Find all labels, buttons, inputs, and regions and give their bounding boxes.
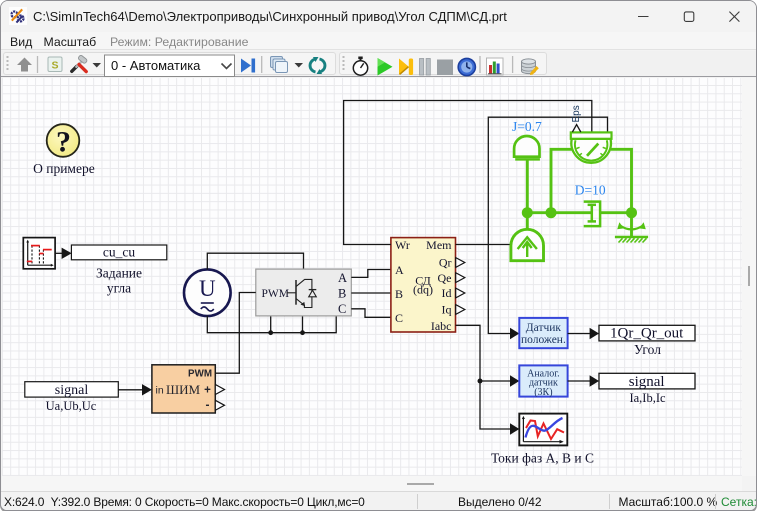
- output box cu_cu: [71, 245, 166, 260]
- AC voltage source U~: [184, 269, 231, 316]
- svg-text:B: B: [395, 287, 403, 301]
- gauge block Eps (accelerometer): [571, 132, 612, 162]
- svg-text:Задание: Задание: [96, 266, 142, 281]
- wire inverter B to motor B: [351, 292, 391, 294]
- wire inverter A to motor A: [351, 270, 391, 278]
- svg-text:угла: угла: [107, 281, 131, 296]
- h-scroll thumb: [407, 483, 434, 485]
- svg-text:PWM: PWM: [188, 369, 212, 380]
- svg-text:cu_cu: cu_cu: [103, 245, 135, 260]
- svg-text:Ua,Ub,Uc: Ua,Ub,Uc: [46, 399, 97, 413]
- svg-text:ШИМ: ШИМ: [166, 382, 201, 397]
- svg-text:Угол: Угол: [634, 342, 661, 357]
- port - marker: [215, 400, 224, 410]
- svg-text:Id: Id: [442, 286, 452, 300]
- svg-text:U: U: [199, 276, 216, 301]
- node shaft 1: [522, 207, 533, 218]
- wire inverter bottom stub 2: [302, 316, 304, 333]
- svg-text:Iabc: Iabc: [431, 319, 452, 333]
- node shaft 3: [626, 207, 637, 218]
- svg-text:(3К): (3К): [534, 387, 552, 398]
- wire U- DC rail: [207, 316, 336, 333]
- svg-text:Ia,Ib,Ic: Ia,Ib,Ic: [629, 391, 666, 405]
- play icon: [378, 58, 393, 76]
- port Qe marker: [456, 273, 465, 283]
- toolbar: [1, 51, 756, 77]
- layers icon: [271, 57, 283, 68]
- script icon: [48, 57, 62, 72]
- wire node to gauge left: [551, 149, 572, 212]
- junction dot Iabc: [478, 379, 483, 384]
- wire ШИМ PWM out to inverter gate: [215, 293, 256, 374]
- gauge input marker: [572, 125, 580, 132]
- svg-text:положен.: положен.: [521, 334, 566, 346]
- sync icon: [310, 59, 315, 72]
- wire inertia to torque source vertical: [526, 160, 529, 230]
- svg-text:Eps: Eps: [571, 105, 582, 122]
- svg-text:Mem: Mem: [426, 238, 452, 252]
- svg-text:in: in: [156, 385, 164, 397]
- position sensor block: [519, 318, 567, 348]
- arrow into position sensor: [510, 328, 519, 339]
- output box signal: [599, 373, 695, 389]
- svg-text:+: +: [204, 384, 211, 396]
- svg-text:Токи фаз А, В и С: Токи фаз А, В и С: [491, 451, 594, 466]
- damper block D: [584, 202, 600, 227]
- svg-text:PWM: PWM: [262, 288, 289, 300]
- svg-text:(dq): (dq): [413, 283, 433, 297]
- grip 2: [343, 56, 345, 70]
- source block (angle setpoint plot icon): [23, 238, 55, 269]
- pause icon (disabled): [420, 59, 424, 76]
- wire damper to right node: [600, 211, 631, 214]
- PWM modulator block ШИМ: [152, 365, 225, 413]
- wire position sensor to output: [568, 333, 590, 335]
- svg-text:0 - Автоматика: 0 - Автоматика: [111, 58, 201, 73]
- svg-text:Iq: Iq: [442, 303, 452, 317]
- wire angle net to gauge and position sensor: [488, 117, 607, 333]
- menubar: [1, 32, 756, 50]
- port Iq marker: [456, 305, 465, 315]
- svg-text:A: A: [395, 263, 404, 277]
- wire signal to ШИМ: [118, 389, 142, 391]
- green mechanical net: [527, 149, 631, 236]
- svg-text:S: S: [51, 60, 58, 72]
- svg-text:signal: signal: [629, 374, 665, 390]
- junction dot rail 1: [268, 330, 273, 335]
- diode D: [309, 290, 317, 297]
- wire node to ground: [630, 213, 633, 236]
- node shaft 2: [546, 207, 557, 218]
- arrow into scope: [510, 423, 519, 434]
- svg-text:Датчик: Датчик: [526, 322, 562, 334]
- svg-text:J=0.7: J=0.7: [512, 119, 542, 134]
- wire U+ to inverter top: [207, 253, 303, 269]
- torque source block: [511, 229, 544, 260]
- arrow into cu_cu: [62, 248, 72, 259]
- wire Mem to torque source: [456, 244, 512, 246]
- inverter block (PWM bridge): [256, 269, 351, 316]
- stopwatch icon: [353, 61, 367, 75]
- svg-text:Qe: Qe: [438, 271, 452, 285]
- port + marker: [215, 385, 224, 395]
- svg-text:1Qr_Qr_out: 1Qr_Qr_out: [610, 326, 684, 342]
- svg-text:A: A: [338, 271, 347, 285]
- stop icon (disabled): [437, 60, 453, 76]
- wire inverter C to motor C: [351, 309, 391, 318]
- svg-text:B: B: [338, 287, 346, 301]
- wire shaft horizontal: [527, 211, 591, 214]
- tools icon: [72, 55, 88, 72]
- run-to icon: [241, 59, 251, 73]
- junction dot rail 2: [300, 330, 305, 335]
- wire Wr feedback loop: [344, 101, 592, 245]
- grip 1: [7, 56, 9, 70]
- database icon: [522, 62, 536, 74]
- arrow into ШИМ: [142, 384, 152, 395]
- svg-text:D=10: D=10: [575, 183, 606, 198]
- chart icon: [487, 58, 504, 75]
- svg-text:signal: signal: [55, 383, 89, 398]
- wire gauge right to node: [611, 149, 632, 212]
- svg-text:-: -: [206, 398, 210, 412]
- output box 1Qr_Qr_out: [599, 325, 695, 341]
- titlebar: [1, 1, 756, 32]
- transistor Q (IGBT): [295, 280, 297, 305]
- wire source to cu_cu: [55, 252, 62, 254]
- analog sensor block: [519, 365, 567, 398]
- rotational ground: [615, 222, 648, 242]
- wire Iabc branch to analog sensor: [480, 380, 511, 382]
- arrow into 1Qr_Qr_out: [590, 328, 599, 339]
- svg-text:Wr: Wr: [395, 238, 410, 252]
- synchronous motor block СД (dq): [391, 238, 465, 333]
- wire Iabc down: [456, 325, 511, 429]
- svg-text:C: C: [395, 311, 403, 325]
- canvas grid: [2, 78, 742, 476]
- port Qr marker: [456, 258, 465, 268]
- statusbar: [1, 491, 756, 510]
- wire analog sensor to output: [568, 380, 590, 382]
- inertia block J: [514, 136, 540, 159]
- scope block: [519, 414, 567, 446]
- input box signal: [25, 382, 119, 397]
- sim-time clock icon: [458, 58, 475, 75]
- svg-text:C: C: [338, 302, 346, 316]
- help block "О примере": [33, 124, 95, 176]
- svg-text:?: ?: [56, 126, 71, 159]
- wire inverter bottom stub 1: [270, 316, 272, 333]
- arrow into signal output: [590, 375, 599, 386]
- arrow into analog sensor: [510, 375, 519, 386]
- combo: [105, 55, 235, 77]
- port Id marker: [456, 288, 465, 298]
- v-scroll thumb: [748, 266, 750, 286]
- skip icon: [399, 59, 409, 76]
- svg-text:Qr: Qr: [439, 255, 452, 269]
- svg-text:О примере: О примере: [33, 161, 95, 176]
- up arrow icon: [17, 58, 32, 72]
